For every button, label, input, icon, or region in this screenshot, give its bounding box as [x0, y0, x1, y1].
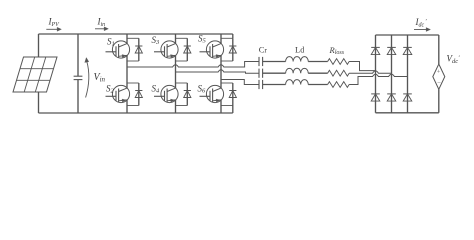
svg-text:+: +	[436, 69, 440, 76]
svg-text:−: −	[437, 80, 441, 87]
svg-text:Cr: Cr	[259, 45, 268, 55]
svg-text:Ld: Ld	[295, 45, 304, 55]
